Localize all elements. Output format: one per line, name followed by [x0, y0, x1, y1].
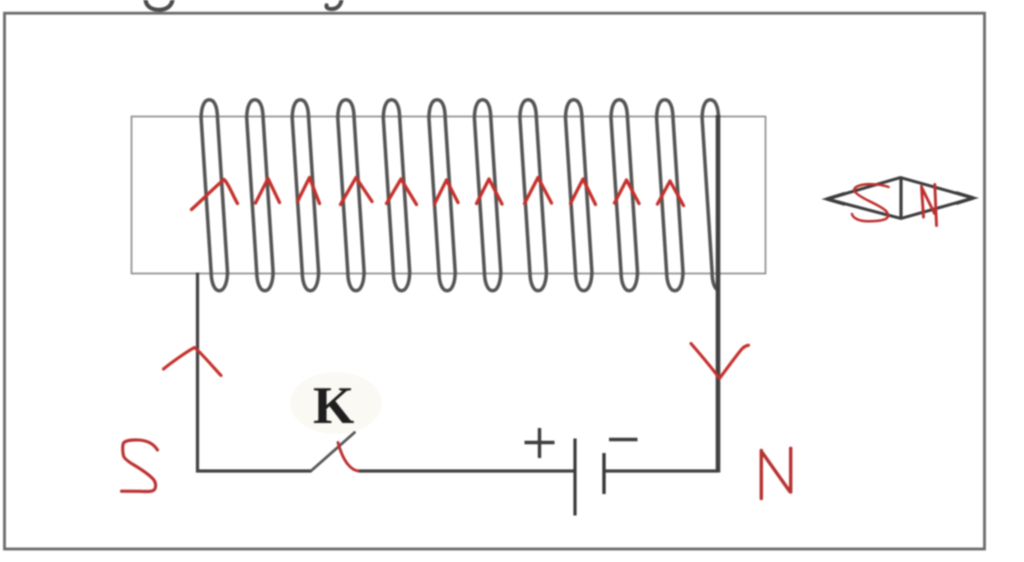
cropped title text fragment 2 — [326, 0, 341, 9]
switch K blade — [312, 433, 355, 471]
current direction arrows inside coil — [192, 178, 684, 210]
battery BT1 negative plate — [602, 453, 605, 494]
wire: right riser up to coil — [716, 115, 721, 473]
compass label S — [852, 184, 889, 221]
label K backdrop tint — [290, 372, 382, 434]
current arrow on right wire — [691, 344, 749, 379]
svg-text:K: K — [313, 377, 354, 435]
polarity label − — [609, 438, 638, 441]
coil L1 (12 turns) — [201, 100, 718, 291]
compass label N — [922, 185, 937, 226]
solenoid core former — [132, 117, 766, 274]
compass needle — [827, 178, 974, 219]
wire: coil left terminal down and bottom-left horizontal — [198, 273, 312, 472]
pole label N (right end of solenoid) — [761, 448, 790, 498]
current arrow on left wire — [164, 348, 222, 376]
battery BT1 positive plate — [573, 439, 576, 516]
polarity label + — [525, 428, 555, 458]
cropped title text fragment 1 — [146, 0, 173, 10]
wire: switch to battery positive — [359, 469, 574, 472]
red annotation at switch — [338, 443, 359, 472]
pole label S (left end of solenoid) — [122, 440, 158, 492]
wire: battery negative to right riser — [606, 469, 719, 472]
